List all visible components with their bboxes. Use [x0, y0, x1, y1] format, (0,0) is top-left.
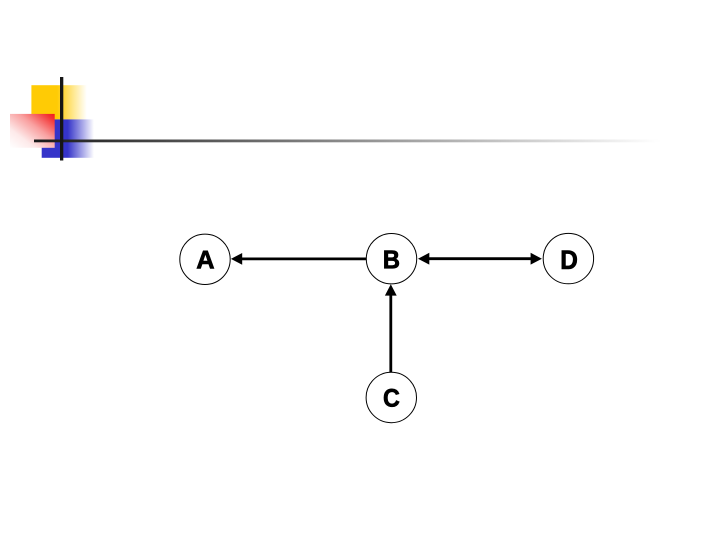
arrow B to D (double headed) — [418, 253, 542, 265]
logo vertical line — [60, 77, 63, 161]
node B — [366, 234, 416, 284]
node C — [366, 372, 416, 422]
horizontal rule — [34, 140, 665, 143]
node A — [180, 234, 230, 284]
node D — [543, 233, 593, 283]
logo yellow square — [31, 85, 88, 119]
logo blue square — [42, 119, 96, 157]
arrow C to B — [385, 284, 397, 372]
arrow B to A — [231, 253, 366, 265]
logo red square — [10, 114, 55, 148]
